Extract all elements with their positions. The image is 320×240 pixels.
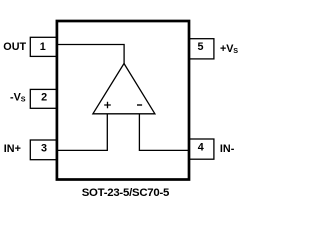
pin 2 box: [30, 89, 57, 108]
wire pin4 to - input: [139, 114, 189, 151]
pin 4 box: [189, 139, 214, 159]
svg-text:5: 5: [197, 41, 203, 53]
svg-text:S: S: [21, 94, 26, 103]
wire pin3 to + input: [57, 114, 107, 151]
package body SOT-23-5 outline: [57, 21, 189, 180]
svg-text:IN-: IN-: [220, 143, 235, 155]
svg-text:S: S: [233, 46, 238, 55]
svg-text:4: 4: [198, 141, 204, 153]
svg-text:IN+: IN+: [4, 143, 21, 155]
pin 5 box: [189, 39, 214, 59]
op-amp + input marker: [104, 102, 111, 109]
svg-text:OUT: OUT: [3, 41, 26, 53]
op-amp - input marker: [137, 104, 142, 106]
svg-text:2: 2: [41, 92, 47, 104]
svg-text:+V: +V: [220, 43, 234, 55]
pin 1 box: [30, 37, 57, 56]
pin 3 box: [30, 140, 57, 160]
svg-text:1: 1: [40, 41, 46, 53]
svg-text:SOT-23-5/SC70-5: SOT-23-5/SC70-5: [82, 187, 170, 199]
wire pin1 to op-amp output: [57, 45, 124, 65]
svg-text:3: 3: [41, 142, 47, 154]
op-amp U1 triangle: [93, 64, 155, 114]
